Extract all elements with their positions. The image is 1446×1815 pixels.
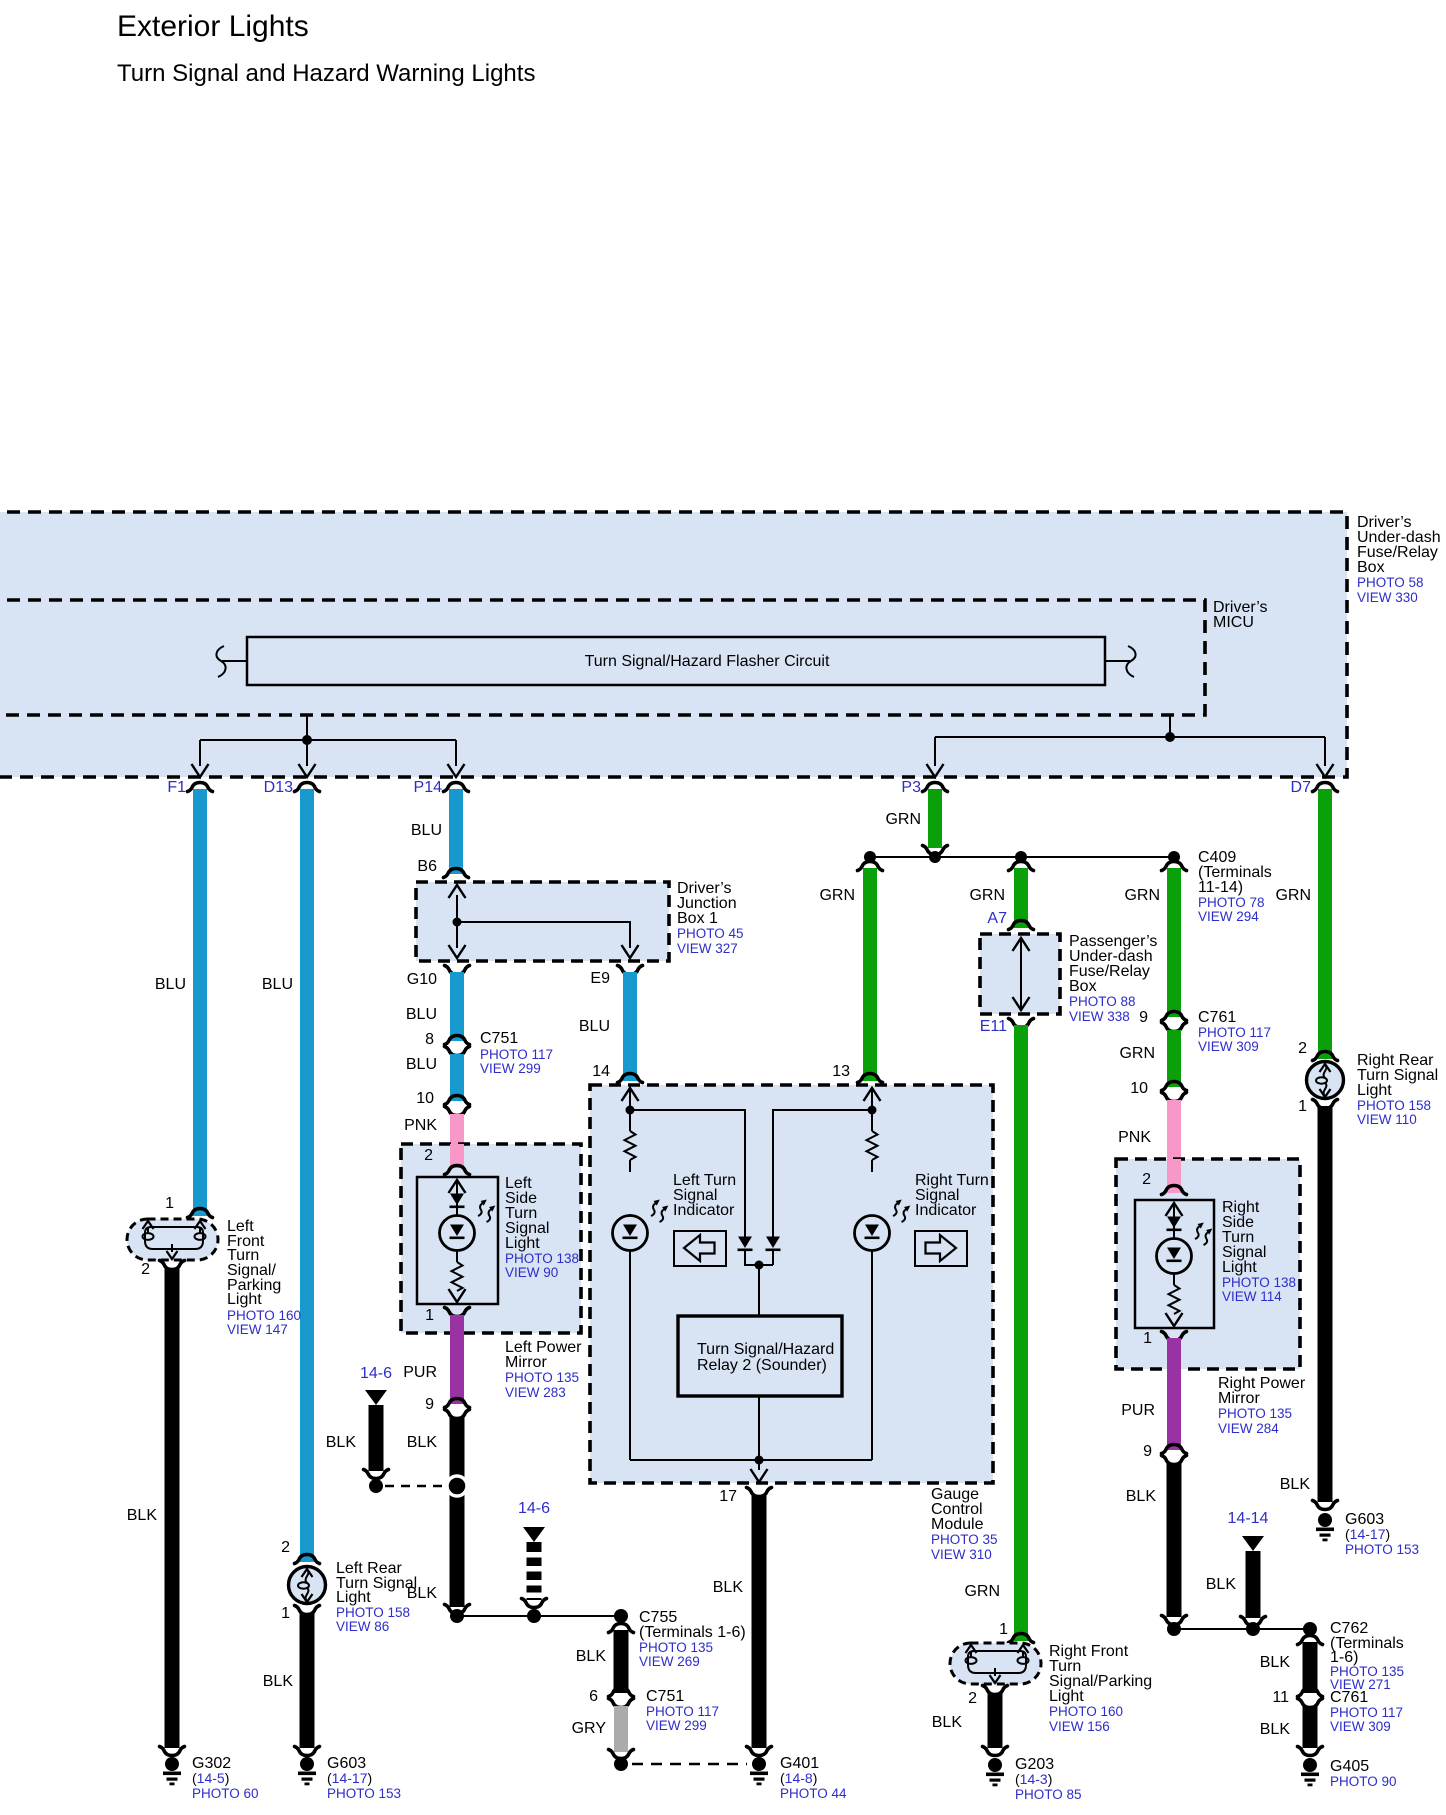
connector end of BLK at splice line: [445, 1605, 470, 1614]
ground bus wire: [457, 1615, 621, 1617]
svg-text:PNK: PNK: [1118, 1129, 1151, 1146]
node bus C409: [1168, 851, 1180, 863]
svg-text:14-6: 14-6: [518, 1500, 550, 1517]
svg-text:2: 2: [1298, 1040, 1307, 1057]
right break squiggle: [1105, 646, 1136, 677]
svg-text:Light: Light: [336, 1589, 371, 1606]
wire F1 BLU: [193, 789, 207, 1216]
svg-text:B6: B6: [417, 858, 437, 875]
connector pin 2 right side light: [1162, 1186, 1187, 1195]
connector P14: [444, 783, 469, 792]
passenger box internal wire: [1020, 940, 1022, 1008]
connector pin 10 left: [445, 1096, 470, 1105]
svg-text:VIEW 330: VIEW 330: [1357, 590, 1418, 605]
svg-text:BLK: BLK: [326, 1434, 357, 1451]
right arrow icon: [915, 1231, 967, 1266]
svg-text:6: 6: [589, 1688, 598, 1705]
svg-text:Turn Signal/Hazard: Turn Signal/Hazard: [697, 1341, 834, 1358]
left side turn signal light L1: [417, 1175, 579, 1304]
svg-text:BLK: BLK: [127, 1507, 158, 1524]
svg-text:Light: Light: [1049, 1688, 1084, 1705]
node right bus 1: [1167, 1622, 1181, 1636]
svg-text:Box: Box: [1069, 978, 1097, 995]
svg-text:14-6: 14-6: [360, 1365, 392, 1382]
ground G401: [750, 1757, 768, 1785]
svg-text:VIEW 327: VIEW 327: [677, 941, 738, 956]
connector below node 13: [858, 862, 883, 871]
node right bus 2: [1246, 1622, 1260, 1636]
wire micu to left splice: [200, 715, 456, 766]
wire GRY: [614, 1706, 628, 1752]
svg-text:C761: C761: [1330, 1689, 1368, 1706]
node splice on BLK wire: [447, 1476, 467, 1496]
svg-text:PHOTO 135: PHOTO 135: [505, 1370, 579, 1385]
svg-text:VIEW 156: VIEW 156: [1049, 1719, 1110, 1734]
wire micu to right splice: [935, 715, 1325, 766]
svg-text:VIEW 110: VIEW 110: [1357, 1112, 1417, 1127]
connector pin 2 left side light: [445, 1166, 470, 1175]
right side light internals: [1166, 1203, 1183, 1216]
wire D7 GRN: [1318, 789, 1332, 1059]
left arrow icon: [674, 1231, 726, 1266]
wire BLK right mirror: [1167, 1463, 1182, 1617]
wire P14 BLU: [449, 789, 463, 874]
connector pin 10 right: [1162, 1082, 1187, 1091]
wire PNK left: [450, 1114, 464, 1168]
svg-text:PHOTO 58: PHOTO 58: [1357, 575, 1424, 590]
right ground bus wire: [1174, 1628, 1310, 1630]
connector pin 2 left rear: [295, 1555, 320, 1564]
svg-text:Mirror: Mirror: [1218, 1390, 1260, 1407]
ground G603 left: [298, 1757, 316, 1785]
svg-text:P14: P14: [414, 779, 443, 796]
node bus A7: [1015, 851, 1027, 863]
svg-text:VIEW 86: VIEW 86: [336, 1619, 389, 1634]
left turn signal indicator LED: [613, 1172, 737, 1251]
connector E9: [618, 966, 643, 975]
wire E9 BLU: [623, 972, 637, 1081]
svg-text:VIEW 283: VIEW 283: [505, 1385, 566, 1400]
ground G302: [163, 1757, 181, 1785]
connector pin 1 left front: [188, 1209, 213, 1218]
svg-text:VIEW 284: VIEW 284: [1218, 1421, 1279, 1436]
svg-text:9: 9: [425, 1396, 434, 1413]
arrow to P14: [448, 764, 465, 777]
svg-text:Relay 2 (Sounder): Relay 2 (Sounder): [697, 1357, 827, 1374]
svg-text:BLU: BLU: [406, 1006, 437, 1023]
connector C761 pin 11: [1298, 1688, 1323, 1697]
svg-text:PHOTO 153: PHOTO 153: [1345, 1542, 1419, 1557]
svg-text:9: 9: [1139, 1009, 1148, 1026]
svg-text:8: 8: [425, 1031, 434, 1048]
connector pin 14 gauge: [618, 1074, 643, 1083]
svg-text:GRN: GRN: [969, 887, 1005, 904]
svg-text:VIEW 310: VIEW 310: [931, 1547, 992, 1562]
svg-text:PUR: PUR: [403, 1364, 437, 1381]
svg-text:10: 10: [1130, 1080, 1148, 1097]
svg-text:BLU: BLU: [406, 1056, 437, 1073]
svg-text:PHOTO 135: PHOTO 135: [1218, 1406, 1292, 1421]
connector D7: [1313, 783, 1338, 792]
wire BLK pin17 to G401: [752, 1495, 767, 1748]
wire A7 GRN: [1014, 868, 1028, 928]
connector C751 pin 8: [445, 1036, 470, 1045]
wire 9-10 GRN: [1167, 1030, 1181, 1087]
svg-text:PHOTO 90: PHOTO 90: [1330, 1774, 1397, 1789]
junction box internal wire: [457, 895, 630, 948]
left front turn signal/parking light L2: [127, 1218, 301, 1337]
wire PNK left inside box: [450, 1144, 464, 1168]
wire BLK C755-C751: [614, 1630, 629, 1693]
svg-text:Indicator: Indicator: [915, 1202, 977, 1219]
svg-text:2: 2: [1142, 1171, 1151, 1188]
svg-text:VIEW 147: VIEW 147: [227, 1322, 288, 1337]
arrow pin 17: [751, 1469, 768, 1482]
svg-text:GRN: GRN: [964, 1583, 1000, 1600]
svg-text:13: 13: [832, 1063, 850, 1080]
svg-text:VIEW 309: VIEW 309: [1330, 1719, 1391, 1734]
svg-text:Module: Module: [931, 1516, 984, 1533]
svg-text:GRN: GRN: [885, 811, 921, 828]
left side light internals: [449, 1180, 466, 1193]
wire BLK left rear to G603: [300, 1613, 315, 1748]
svg-text:VIEW 338: VIEW 338: [1069, 1009, 1130, 1024]
connector E11: [1009, 1019, 1034, 1028]
connector C751 pin 6: [609, 1688, 634, 1697]
resistor left indicator: [625, 1131, 636, 1160]
svg-text:9: 9: [1143, 1443, 1152, 1460]
svg-text:F1: F1: [167, 779, 186, 796]
node 13 branch: [868, 1106, 877, 1115]
right rear bulb filament: [1316, 1064, 1331, 1097]
connector pin 9 right mirror: [1162, 1445, 1187, 1454]
ground G405: [1301, 1758, 1319, 1786]
node splice right: [1165, 732, 1175, 742]
svg-text:Box: Box: [1357, 559, 1385, 576]
wire BLK right front to G203: [988, 1693, 1003, 1748]
svg-text:2: 2: [141, 1261, 150, 1278]
wire PUR right: [1167, 1338, 1181, 1450]
svg-text:BLK: BLK: [932, 1714, 963, 1731]
svg-text:C761: C761: [1198, 1009, 1236, 1026]
wire P3 GRN: [928, 789, 942, 848]
wire 8-10 BLU: [450, 1054, 464, 1101]
ground G203: [986, 1758, 1004, 1786]
svg-text:PHOTO 44: PHOTO 44: [780, 1786, 847, 1801]
driver's under-dash fuse/relay box: [0, 512, 1441, 777]
svg-text:PHOTO 160: PHOTO 160: [227, 1308, 301, 1323]
wire BLK C762-C761: [1303, 1642, 1318, 1693]
svg-text:PHOTO 45: PHOTO 45: [677, 926, 744, 941]
svg-text:MICU: MICU: [1213, 614, 1254, 631]
svg-text:BLK: BLK: [1126, 1488, 1157, 1505]
svg-text:Mirror: Mirror: [505, 1354, 547, 1371]
svg-text:BLU: BLU: [262, 976, 293, 993]
svg-text:G10: G10: [407, 971, 437, 988]
wire BLK left mirror: [450, 1417, 465, 1607]
turn signal/hazard relay 2 (sounder) K1: [678, 1316, 842, 1396]
node bus 13: [864, 851, 876, 863]
svg-text:BLK: BLK: [1260, 1654, 1291, 1671]
connector D13: [295, 783, 320, 792]
svg-text:BLU: BLU: [411, 822, 442, 839]
connector C755: [609, 1624, 634, 1633]
svg-text:1: 1: [999, 1621, 1008, 1638]
right side turn signal light L4: [1135, 1199, 1296, 1328]
svg-text:BLU: BLU: [579, 1018, 610, 1035]
arrow to P3: [927, 764, 944, 777]
svg-text:(14-3): (14-3): [1015, 1771, 1052, 1787]
wire E11 GRN long: [1014, 1025, 1028, 1641]
wire BLK right rear to G603: [1318, 1106, 1333, 1502]
node bus P3: [929, 851, 941, 863]
right front bulb internals: [968, 1651, 1026, 1673]
svg-text:2: 2: [281, 1539, 290, 1556]
svg-text:Exterior Lights: Exterior Lights: [117, 10, 309, 43]
svg-text:11: 11: [1272, 1689, 1289, 1706]
connector pin 9 left mirror: [445, 1399, 470, 1408]
svg-text:P3: P3: [901, 779, 921, 796]
svg-text:(14-5): (14-5): [192, 1770, 229, 1786]
connector P3: [923, 783, 948, 792]
left front bulb internals: [145, 1227, 203, 1249]
connector C409: [1162, 862, 1187, 871]
node relay output: [755, 1456, 764, 1465]
wire G10 BLU: [450, 972, 464, 1041]
svg-text:GRN: GRN: [1124, 887, 1160, 904]
dashed link to G401: [632, 1763, 747, 1766]
left rear bulb filament: [298, 1569, 313, 1602]
gauge control module box: [590, 1085, 998, 1562]
svg-text:BLK: BLK: [576, 1648, 607, 1665]
svg-text:GRY: GRY: [572, 1720, 607, 1737]
svg-text:14: 14: [592, 1063, 610, 1080]
arrow to D13: [299, 764, 316, 777]
node diode join: [755, 1261, 764, 1270]
svg-text:VIEW 90: VIEW 90: [505, 1265, 558, 1280]
svg-text:VIEW 299: VIEW 299: [646, 1718, 707, 1733]
connector G10: [445, 966, 470, 975]
connector pin 1 right side light: [1162, 1332, 1187, 1341]
wire PUR left: [450, 1315, 464, 1404]
gauge internal wire left branch: [622, 1088, 639, 1101]
svg-text:Light: Light: [1357, 1082, 1392, 1099]
svg-text:(Terminals 1-6): (Terminals 1-6): [639, 1624, 746, 1641]
connector pin 17: [747, 1488, 772, 1497]
node C755: [614, 1609, 628, 1623]
driver's MICU box: [0, 599, 1268, 715]
wire PNK right: [1167, 1100, 1181, 1193]
svg-text:BLK: BLK: [713, 1579, 744, 1596]
connector below node A7: [1009, 862, 1034, 871]
node C762: [1303, 1622, 1317, 1636]
svg-text:2: 2: [968, 1690, 977, 1707]
connector pin 2 right rear: [1313, 1052, 1338, 1061]
svg-text:PHOTO 135: PHOTO 135: [639, 1640, 713, 1655]
svg-text:PHOTO 117: PHOTO 117: [1198, 1025, 1271, 1040]
connector pin 2 left front: [160, 1261, 185, 1270]
wire D13 BLU: [300, 789, 314, 1562]
left rear turn signal light L3: [289, 1560, 418, 1634]
svg-text:A7: A7: [987, 910, 1007, 927]
svg-text:1: 1: [1298, 1098, 1307, 1115]
turn signal/hazard flasher circuit U1: [247, 637, 1105, 685]
svg-text:D13: D13: [264, 779, 293, 796]
svg-text:(14-17): (14-17): [327, 1770, 372, 1786]
svg-text:Light: Light: [1222, 1259, 1257, 1276]
ground G603 right: [1316, 1513, 1334, 1541]
right turn signal indicator LED: [855, 1172, 989, 1251]
svg-text:PHOTO 60: PHOTO 60: [192, 1786, 259, 1801]
wire BLK left front to G302: [165, 1268, 180, 1748]
dashed link wire: [385, 1485, 450, 1488]
svg-text:BLK: BLK: [1260, 1721, 1291, 1738]
connector C762: [1298, 1636, 1323, 1645]
connector pin 1 left side light: [445, 1308, 470, 1317]
node splice left: [302, 735, 312, 745]
connector B6: [444, 869, 469, 878]
svg-text:1: 1: [165, 1195, 174, 1212]
wire 13 GRN: [863, 868, 877, 1081]
node 14 branch: [626, 1106, 635, 1115]
svg-text:PHOTO 78: PHOTO 78: [1198, 895, 1265, 910]
svg-text:BLU: BLU: [155, 976, 186, 993]
svg-text:Turn Signal and Hazard Warning: Turn Signal and Hazard Warning Lights: [117, 60, 535, 87]
svg-text:BLK: BLK: [263, 1673, 294, 1690]
svg-text:E9: E9: [590, 970, 610, 987]
right rear turn signal light L5: [1307, 1052, 1439, 1127]
svg-text:PHOTO 158: PHOTO 158: [1357, 1098, 1431, 1113]
node GRY end: [614, 1757, 628, 1771]
svg-text:PUR: PUR: [1121, 1402, 1155, 1419]
svg-text:11-14): 11-14): [1198, 879, 1243, 896]
svg-text:Turn Signal/Hazard Flasher Cir: Turn Signal/Hazard Flasher Circuit: [585, 653, 830, 670]
svg-text:BLK: BLK: [1206, 1576, 1237, 1593]
svg-text:GRN: GRN: [819, 887, 855, 904]
right front turn signal/parking light L6: [950, 1643, 1152, 1734]
svg-text:VIEW 269: VIEW 269: [639, 1654, 700, 1669]
svg-text:PNK: PNK: [404, 1117, 437, 1134]
connector P3 lower: [923, 846, 948, 855]
svg-text:PHOTO 117: PHOTO 117: [1330, 1705, 1403, 1720]
connector pin 1 right rear: [1313, 1100, 1338, 1109]
svg-text:C751: C751: [480, 1030, 518, 1047]
wire C409 GRN: [1167, 868, 1181, 1017]
right power mirror box: [1116, 1159, 1306, 1436]
svg-text:GRN: GRN: [1275, 887, 1311, 904]
left break squiggle: [216, 646, 247, 677]
driver's junction box 1: [416, 880, 744, 961]
connector pin 1 left rear: [295, 1606, 320, 1615]
connector pin 13 gauge: [858, 1074, 883, 1083]
passenger's under-dash fuse/relay box: [980, 933, 1157, 1024]
green bus line: [870, 856, 1174, 858]
svg-text:VIEW 309: VIEW 309: [1198, 1039, 1259, 1054]
wire PNK right inside box: [1167, 1159, 1181, 1193]
connector A7: [1009, 921, 1034, 930]
svg-text:G405: G405: [1330, 1758, 1369, 1775]
svg-text:PHOTO 138: PHOTO 138: [505, 1251, 579, 1266]
svg-text:(14-8): (14-8): [780, 1770, 817, 1786]
wire BLK to G405: [1303, 1706, 1318, 1748]
svg-text:PHOTO 88: PHOTO 88: [1069, 994, 1136, 1009]
connector pin 1 right front: [1009, 1634, 1034, 1643]
svg-text:PHOTO 35: PHOTO 35: [931, 1532, 998, 1547]
arrow to F1: [192, 764, 209, 777]
svg-text:2: 2: [424, 1147, 433, 1164]
svg-text:GRN: GRN: [1119, 1045, 1155, 1062]
svg-text:BLK: BLK: [1280, 1476, 1311, 1493]
diode left hazard: [738, 1237, 753, 1252]
svg-text:PHOTO 117: PHOTO 117: [646, 1704, 719, 1719]
connector pin 2 right front: [983, 1686, 1008, 1695]
left power mirror box: [401, 1144, 582, 1400]
svg-text:E11: E11: [980, 1018, 1007, 1035]
svg-text:D7: D7: [1291, 779, 1312, 796]
svg-text:PHOTO 138: PHOTO 138: [1222, 1275, 1296, 1290]
svg-text:(14-17): (14-17): [1345, 1526, 1390, 1542]
svg-text:1: 1: [1143, 1330, 1152, 1347]
svg-text:Indicator: Indicator: [673, 1202, 735, 1219]
resistor right indicator: [867, 1131, 878, 1160]
svg-text:10: 10: [416, 1090, 434, 1107]
svg-text:PHOTO 153: PHOTO 153: [327, 1786, 401, 1801]
connector F1: [188, 783, 213, 792]
svg-text:PHOTO 158: PHOTO 158: [336, 1605, 410, 1620]
svg-text:VIEW 299: VIEW 299: [480, 1061, 541, 1076]
connector C761 pin 9: [1162, 1012, 1187, 1021]
svg-text:BLK: BLK: [407, 1434, 438, 1451]
svg-text:VIEW 294: VIEW 294: [1198, 909, 1259, 924]
svg-text:Light: Light: [505, 1235, 540, 1252]
svg-text:PHOTO 160: PHOTO 160: [1049, 1704, 1123, 1719]
svg-text:PHOTO 85: PHOTO 85: [1015, 1787, 1082, 1802]
arrow to D7: [1317, 764, 1334, 777]
svg-text:Box 1: Box 1: [677, 910, 718, 927]
svg-text:VIEW 114: VIEW 114: [1222, 1289, 1282, 1304]
relay output wire: [630, 1396, 872, 1470]
svg-text:PHOTO 117: PHOTO 117: [480, 1047, 553, 1062]
gauge internal wire right branch: [864, 1088, 881, 1101]
svg-text:14-14: 14-14: [1228, 1510, 1269, 1527]
node junction box: [453, 918, 462, 927]
svg-text:C751: C751: [646, 1688, 684, 1705]
diode right hazard: [766, 1237, 781, 1252]
svg-text:17: 17: [719, 1488, 737, 1505]
svg-text:Light: Light: [227, 1291, 262, 1308]
svg-text:1: 1: [425, 1307, 434, 1324]
svg-text:1: 1: [281, 1605, 290, 1622]
